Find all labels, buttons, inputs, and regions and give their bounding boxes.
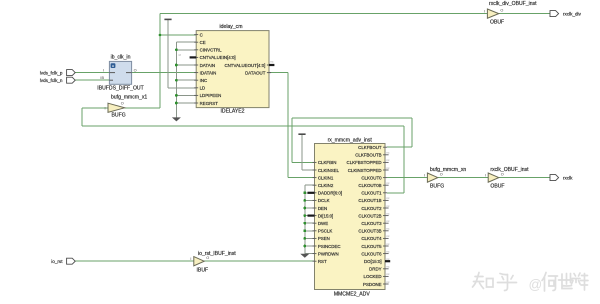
wire BUFG x1 input horizontal — [82, 107, 108, 109]
svg-text:PSDONE: PSDONE — [363, 282, 382, 287]
pin CLKOUT1B — [383, 199, 389, 201]
wire IBUFDS O to IDELAYE2 IDATAIN — [132, 72, 197, 74]
svg-text:DATAIN: DATAIN — [200, 63, 215, 68]
svg-text:DCLK: DCLK — [318, 198, 330, 203]
pin LDPIPEEN — [194, 94, 198, 96]
svg-text:CLKFBIN: CLKFBIN — [318, 160, 337, 165]
input port io_rst — [67, 258, 76, 264]
svg-text:1f: 1f — [178, 53, 181, 57]
buffer io_rst_IBUF_inst IBUF — [190, 251, 236, 274]
input port lvds_fclk_n — [67, 77, 76, 83]
node tie junction — [303, 199, 306, 202]
wire net clkout1 vertical x=404 — [403, 126, 405, 193]
node tie junction LDPIPEEN — [175, 94, 178, 97]
node tie junction CINVCTRL — [175, 48, 178, 51]
bus stub DADDR const — [308, 192, 315, 194]
svg-text:O: O — [501, 172, 504, 176]
wire gnd tie to PSCLK — [305, 230, 315, 232]
svg-text:lvds_fclk_p: lvds_fclk_p — [40, 70, 63, 75]
pin IDATAIN — [194, 72, 198, 74]
svg-text:CLKOUT4: CLKOUT4 — [361, 236, 382, 241]
pin CLKOUT1 — [383, 192, 387, 194]
wire gnd tie to INC — [176, 79, 196, 81]
wire MMCM CLKFBOUT to corner — [387, 146, 412, 148]
svg-text:CLKOUT3B: CLKOUT3B — [358, 229, 381, 234]
wire gnd tie to DATAIN — [176, 64, 196, 66]
svg-text:I: I — [105, 107, 106, 111]
svg-text:CLKOUT2: CLKOUT2 — [361, 206, 382, 211]
svg-text:DATAOUT: DATAOUT — [245, 70, 266, 75]
pin CINVCTRL — [194, 49, 198, 51]
svg-text:CLKOUT1B: CLKOUT1B — [358, 198, 381, 203]
node junction clk_x1 / C — [159, 34, 162, 37]
pin CLKOUT0 — [383, 177, 387, 179]
wire gnd tie vertical x=176 — [175, 42, 177, 117]
svg-text:IBUF: IBUF — [197, 268, 209, 274]
pin CLKIN1 — [313, 177, 317, 179]
svg-text:CLKOUT3: CLKOUT3 — [361, 221, 382, 226]
pin CLKFBOUT — [383, 146, 387, 148]
pin CLKIN2 — [313, 184, 317, 186]
svg-text:CLKIN2: CLKIN2 — [318, 183, 334, 188]
wire gnd tie to PSEN — [305, 237, 315, 239]
svg-text:O: O — [500, 8, 503, 12]
svg-text:DI[15:0]: DI[15:0] — [318, 213, 333, 218]
wire vcc tie to CLKINSEL — [301, 134, 303, 170]
svg-text:@: @ — [529, 277, 543, 292]
wire BUFG xn output to OBUF — [438, 177, 488, 179]
svg-text:I: I — [484, 9, 485, 13]
svg-text:lvds_fclk_n: lvds_fclk_n — [40, 78, 63, 83]
svg-text:DEN: DEN — [318, 206, 327, 211]
svg-text:CLKOUT0B: CLKOUT0B — [358, 183, 381, 188]
svg-text:IDATAIN: IDATAIN — [200, 70, 217, 75]
svg-text:CE: CE — [200, 40, 206, 45]
svg-text:CLKOUT0: CLKOUT0 — [361, 175, 382, 180]
svg-text:rxclk_OBUF_inst: rxclk_OBUF_inst — [490, 167, 529, 173]
pin CLKOUT6 — [383, 253, 389, 255]
wire gnd tie to DCLK — [305, 199, 315, 201]
node tie junction — [303, 214, 306, 217]
wire gnd tie to DADDR — [305, 192, 315, 194]
pin DWE — [313, 222, 317, 224]
svg-text:rxclk_div: rxclk_div — [563, 11, 582, 16]
wire gnd tie to PSINCDEC — [305, 245, 315, 247]
pin LD — [194, 87, 198, 89]
pin LOCKED — [383, 275, 389, 277]
power VCC tie for LD — [164, 18, 171, 20]
pin CLKFBOUTB — [383, 154, 389, 156]
svg-text:I: I — [103, 68, 104, 72]
wire net clk_x1 top horizontal to OBUF rxclk_div — [160, 13, 487, 15]
buffer rxclk_OBUF_inst OBUF — [485, 167, 529, 189]
wire gnd tie to CLKIN2 — [305, 184, 315, 186]
svg-text:CLKFBOUT: CLKFBOUT — [358, 145, 382, 150]
wire gnd tie to DWE — [305, 222, 315, 224]
svg-text:idelay_cm: idelay_cm — [220, 24, 243, 30]
pin PSINCDEC — [313, 245, 317, 247]
svg-text:O: O — [440, 172, 443, 176]
svg-text:CLKOUT2B: CLKOUT2B — [358, 213, 381, 218]
svg-text:REGRST: REGRST — [200, 101, 219, 106]
svg-text:IB: IB — [100, 76, 104, 80]
wire feedback into CLKFBIN — [292, 161, 315, 163]
node tie junction — [303, 191, 306, 194]
svg-text:PWRDWN: PWRDWN — [318, 251, 339, 256]
wire gnd tie to DI — [305, 215, 315, 217]
svg-text:IBUFDS_DIFF_OUT: IBUFDS_DIFF_OUT — [97, 86, 143, 92]
svg-text:DADDR[6:0]: DADDR[6:0] — [318, 191, 342, 196]
bus stub CNTVALUEIN const — [190, 56, 197, 58]
svg-text:I: I — [424, 173, 425, 177]
pin DO[15:0] — [385, 260, 390, 262]
svg-text:CNTVALUEOUT[4:0]: CNTVALUEOUT[4:0] — [224, 63, 265, 68]
pin DCLK — [313, 199, 317, 201]
IDELAYE2 idelay_cm — [178, 24, 274, 114]
svg-text:MMCME2_ADV: MMCME2_ADV — [334, 291, 371, 297]
svg-text:O: O — [134, 68, 137, 72]
pin CLKOUT5 — [383, 245, 389, 247]
wire lvds_fclk_p to IBUFDS I — [75, 72, 109, 74]
svg-text:CNTVALUEIN[4:0]: CNTVALUEIN[4:0] — [200, 55, 236, 60]
wire lvds_fclk_n to IBUFDS IB — [75, 79, 109, 81]
svg-text:DO[15:0]: DO[15:0] — [364, 259, 382, 264]
node tie junction DATAIN — [175, 64, 178, 67]
pin DEN — [313, 207, 317, 209]
wire dataout into MMCM CLKIN1 — [288, 177, 315, 179]
ground — [172, 117, 181, 121]
svg-text:RST: RST — [318, 259, 327, 264]
power VCC tie for CLKINSEL — [298, 133, 305, 135]
svg-text:PSCLK: PSCLK — [318, 229, 332, 234]
svg-text:bufg_mmcm_xn: bufg_mmcm_xn — [430, 167, 466, 173]
svg-text:DWE: DWE — [318, 221, 328, 226]
svg-text:CLKOUT1: CLKOUT1 — [361, 191, 382, 196]
svg-text:O: O — [121, 101, 124, 105]
svg-text:CLKFBOUTB: CLKFBOUTB — [355, 153, 381, 158]
wire feedback vertical x=412 — [411, 118, 413, 147]
pin PSDONE — [383, 283, 389, 285]
pin DATAOUT — [267, 72, 271, 74]
svg-text:BUFG: BUFG — [430, 183, 444, 189]
pin CLKOUT2B — [383, 215, 389, 217]
svg-text:CLKINSEL: CLKINSEL — [318, 168, 340, 173]
svg-text:CLKINSTOPPED: CLKINSTOPPED — [348, 168, 382, 173]
pin PSEN — [313, 237, 317, 239]
pin CNTVALUEIN[4:0] — [194, 56, 198, 58]
wire OBUF output to rxclk_div port — [499, 13, 550, 15]
output port rxclk — [550, 175, 559, 181]
pin DI[15:0] — [313, 215, 317, 217]
buffer rxclk_div_OBUF_inst OBUF — [484, 1, 537, 25]
wire gnd tie to CINVCTRL — [176, 49, 196, 51]
pin CNTVALUEOUT[4:0] — [267, 64, 271, 66]
node tie junction — [303, 207, 306, 210]
wire gnd tie to PWRDWN — [305, 253, 315, 255]
output port rxclk_div — [550, 11, 559, 17]
svg-text:CINVCTRL: CINVCTRL — [200, 48, 223, 53]
svg-text:IDELAYE2: IDELAYE2 — [221, 108, 245, 114]
svg-text:BUFG: BUFG — [112, 113, 126, 119]
wire gnd tie to DEN — [305, 207, 315, 209]
svg-text:LOCKED: LOCKED — [364, 274, 382, 279]
buffer bufg_mmcm_xn BUFG — [424, 167, 466, 189]
pin DATAIN — [194, 64, 198, 66]
wire vcc tie to LD — [167, 19, 169, 87]
pin CE — [194, 41, 198, 43]
wire gnd tie to CE — [176, 41, 196, 43]
wire MMCM CLKOUT1 stub to corner — [387, 192, 404, 194]
pin CLKFBIN — [313, 161, 317, 163]
pin PSCLK — [313, 230, 317, 232]
svg-text:LD: LD — [200, 86, 206, 91]
pin CLKOUT3B — [383, 230, 389, 232]
pin CLKOUT3 — [383, 222, 389, 224]
svg-text:io_rst: io_rst — [51, 259, 63, 264]
node tie junction — [303, 229, 306, 232]
wire IDELAYE2 DATAOUT out — [269, 72, 288, 74]
ground — [300, 254, 309, 258]
svg-text:bufg_mmcm_x1: bufg_mmcm_x1 — [111, 95, 147, 101]
svg-text:OBUF: OBUF — [490, 183, 504, 189]
pin CLKOUT4 — [383, 237, 389, 239]
pin CLKINSEL — [313, 169, 317, 171]
svg-text:INC: INC — [200, 78, 208, 83]
buffer bufg_mmcm_x1 BUFG — [105, 95, 148, 119]
node tie junction — [303, 237, 306, 240]
wire net clk_x1 vertical x=160 — [159, 14, 161, 108]
svg-text:rx_mmcm_adv_inst: rx_mmcm_adv_inst — [328, 138, 373, 144]
pin REGRST — [194, 102, 198, 104]
wire IBUF output to MMCM RST — [204, 260, 314, 262]
svg-text:PSEN: PSEN — [318, 236, 330, 241]
svg-text:CLKOUT5: CLKOUT5 — [361, 244, 382, 249]
wire feedback vertical x=292 — [291, 118, 293, 162]
svg-text:LDPIPEEN: LDPIPEEN — [200, 93, 222, 98]
buffer ib_clk_in IBUFDS_DIFF_OUT — [97, 54, 143, 91]
wire vcc tie into LD pin — [168, 87, 196, 89]
pin DRDY — [383, 268, 389, 270]
wire OBUF output to rxclk port — [499, 177, 550, 179]
pin CLKOUT0B — [383, 184, 389, 186]
svg-text:PSINCDEC: PSINCDEC — [318, 244, 341, 249]
wire io_rst to IBUF — [75, 260, 194, 262]
pin DADDR[6:0] — [313, 192, 317, 194]
pin CLKINSTOPPED — [383, 169, 389, 171]
wire BUFG x1 output — [125, 107, 160, 109]
svg-text:CLKIN1: CLKIN1 — [318, 175, 334, 180]
pin CLKFBSTOPPED — [383, 161, 389, 163]
bus stub CNTVALUEOUT nc — [269, 64, 274, 66]
svg-text:OBUF: OBUF — [490, 19, 504, 25]
node tie junction REGRST — [175, 102, 178, 105]
wire MMCM CLKOUT0 to BUFG xn — [387, 177, 427, 179]
wire net clkout1 long horizontal y=126 — [82, 125, 404, 127]
MMCME2_ADV rx_mmcm_adv_inst — [308, 138, 391, 298]
pin RST — [313, 260, 317, 262]
svg-text:I: I — [190, 257, 191, 261]
wire gnd tie vertical x=305 — [304, 185, 306, 254]
wire clk_x1 to IDELAYE2 pin C — [160, 34, 196, 36]
node tie junction INC — [175, 79, 178, 82]
pin CLKOUT2 — [383, 207, 389, 209]
svg-text:rxclk_div_OBUF_inst: rxclk_div_OBUF_inst — [489, 1, 537, 7]
wire dataout vertical x=288 — [287, 73, 289, 178]
wire BUFG x1 input vertical x=82 — [81, 108, 83, 126]
svg-text:DRDY: DRDY — [369, 267, 382, 272]
pin C — [194, 34, 198, 36]
wire gnd tie to LDPIPEEN — [176, 94, 196, 96]
input port lvds_fclk_p — [67, 70, 76, 76]
node tie junction — [303, 245, 306, 248]
svg-text:ib_clk_in: ib_clk_in — [111, 54, 131, 60]
svg-text:CLKFBSTOPPED: CLKFBSTOPPED — [347, 160, 382, 165]
wire vcc tie into CLKINSEL pin — [302, 169, 315, 171]
node tie junction — [303, 222, 306, 225]
pin INC — [194, 79, 198, 81]
svg-text:rxclk: rxclk — [563, 175, 573, 180]
wire feedback horizontal y=118 — [292, 117, 412, 119]
svg-text:I: I — [485, 173, 486, 177]
pin PWRDWN — [313, 253, 317, 255]
wire gnd tie to REGRST — [176, 102, 196, 104]
bus stub DI const — [308, 215, 315, 217]
svg-text:io_rst_IBUF_inst: io_rst_IBUF_inst — [198, 251, 236, 257]
watermark zhihu — [473, 273, 517, 291]
svg-text:C: C — [200, 32, 203, 37]
svg-text:CLKOUT6: CLKOUT6 — [361, 251, 382, 256]
